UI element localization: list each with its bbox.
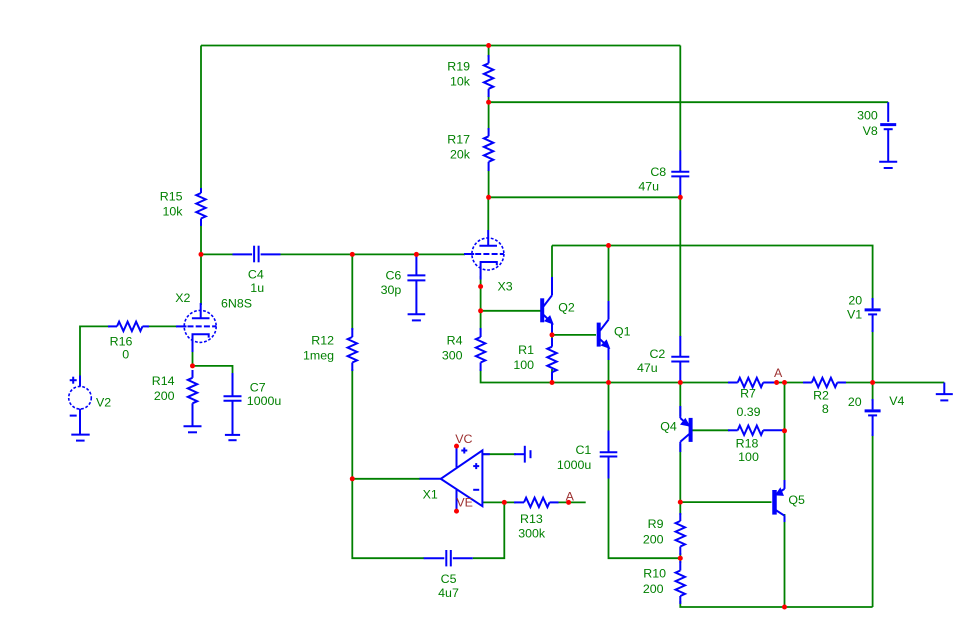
svg-text:Q5: Q5 [788, 493, 805, 507]
svg-text:Q4: Q4 [660, 420, 677, 434]
node dot inverting input / C5 branch [502, 500, 507, 505]
wire opamp output [352, 478, 420, 480]
node dot A stub right of R7 [774, 380, 779, 385]
node dot A vertical top [782, 380, 787, 385]
wire C1 to R9/R10 node [609, 479, 681, 559]
triode X3 [464, 230, 504, 280]
svg-text:R7: R7 [740, 387, 756, 401]
svg-text:0: 0 [122, 348, 129, 362]
svg-text:47u: 47u [638, 179, 659, 193]
node dot C6 top [414, 252, 419, 257]
wire node to right ground [873, 382, 945, 384]
resistor R12 1meg [348, 328, 357, 371]
triode X2 6N8S [176, 303, 216, 352]
wire Q1 collector vertical [608, 246, 610, 310]
svg-text:R16: R16 [110, 335, 133, 349]
wire R13 right to node A stub [558, 501, 586, 503]
wire V2 to R16 [80, 326, 110, 375]
node dot collector rail [606, 243, 611, 248]
svg-text:R10: R10 [643, 567, 666, 581]
svg-text:R19: R19 [447, 60, 470, 74]
wire X2 anode vertical [200, 254, 202, 305]
wire R2 to V1/V4 node [845, 382, 873, 384]
svg-text:20: 20 [848, 395, 862, 409]
resistor R7 0.39 (horizontal) [728, 378, 777, 387]
ground under R14 [184, 414, 202, 432]
svg-text:R13: R13 [520, 512, 543, 526]
svg-text:C7: C7 [250, 380, 266, 394]
svg-text:300: 300 [442, 349, 463, 363]
capacitor C5 4u7 (horizontal) [424, 550, 473, 566]
wire X3 cathode down [480, 276, 482, 311]
wire Q4 collector to R9 [679, 444, 681, 515]
resistor R9 200 [676, 513, 685, 555]
wire Q5 emitter down [784, 514, 786, 607]
resistor R2 8 (horizontal) [803, 378, 846, 387]
wire Q2 base [481, 310, 541, 312]
node dot R19 top [486, 43, 491, 48]
wire opamp noninverting input [482, 453, 516, 455]
node dot VC pin [454, 444, 459, 449]
wire C5 to inverting branch [473, 502, 505, 558]
wire X3 anode vertical [487, 197, 489, 230]
wire collector rail to V1 [552, 246, 873, 301]
wire Q1 base [552, 334, 596, 336]
wire R14 node to C7 [193, 366, 233, 375]
svg-text:R2: R2 [813, 389, 829, 403]
transistor Q1 (npn) [599, 301, 610, 360]
wire C8 to C2 vertical [679, 197, 681, 336]
capacitor C7 1000u [224, 373, 242, 435]
svg-text:200: 200 [643, 582, 664, 596]
wire R4 bottom to bottom rail [481, 369, 730, 383]
node dot A near R13 [566, 500, 571, 505]
svg-text:VC: VC [455, 432, 472, 446]
capacitor C4 1u (horizontal) [233, 246, 281, 263]
wire R12 line to C5 rail [352, 479, 424, 558]
node dot C2 / R7 / Q4 emitter [678, 380, 683, 385]
wire R7 to R2 segment [777, 382, 804, 384]
node dot X2 cathode / R14 / C7 [190, 363, 195, 368]
wire R15 bottom to node [200, 225, 202, 254]
svg-text:10k: 10k [450, 75, 471, 89]
svg-text:30p: 30p [381, 283, 402, 297]
node dot R15/C4/X2 anode [199, 252, 204, 257]
svg-text:R4: R4 [447, 333, 463, 347]
node dot R17/C8 wire [486, 195, 491, 200]
svg-text:Q2: Q2 [558, 301, 575, 315]
wire top rail B+ [201, 45, 680, 47]
wire R19/R17 junction to V8 [489, 101, 889, 103]
wire X3 cathode to R4 [480, 311, 482, 330]
svg-text:10k: 10k [163, 205, 184, 219]
resistor R14 200 [188, 370, 197, 414]
node dot R9/R10/C1 [678, 556, 683, 561]
op-amp X1 [420, 446, 490, 511]
capacitor C6 30p [407, 254, 425, 314]
node dot Q2 emitter / R1 / Q1 base [550, 332, 555, 337]
svg-text:1000u: 1000u [247, 394, 282, 408]
wire C1 vertical upper [608, 383, 610, 431]
wire X2 cathode to R14 node [192, 348, 194, 366]
svg-text:200: 200 [643, 532, 664, 546]
wire Q1 emitter down [608, 360, 610, 383]
wire node A vertical [784, 383, 786, 489]
svg-text:R14: R14 [152, 374, 175, 388]
wire R12 line upper [351, 254, 353, 330]
svg-text:100: 100 [738, 450, 759, 464]
wire R19 leads [488, 46, 490, 58]
svg-text:R18: R18 [736, 437, 759, 451]
resistor R17 20k [484, 128, 493, 171]
node dot R12 top [350, 252, 355, 257]
svg-text:C2: C2 [649, 347, 665, 361]
svg-text:8: 8 [822, 402, 829, 416]
svg-text:300k: 300k [518, 527, 546, 541]
node dot C8 bottom [678, 195, 683, 200]
node dot Q1 emitter / C1 [606, 380, 611, 385]
node dot R1 bottom [550, 380, 555, 385]
transistor Q4 (pnp) [680, 406, 690, 452]
resistor R13 300k (horizontal) [514, 498, 559, 507]
node dot opamp output on R12 line [350, 476, 355, 481]
svg-text:C6: C6 [385, 269, 401, 283]
svg-text:A: A [774, 366, 783, 380]
wire opamp inverting input to R13 [482, 501, 516, 503]
battery V8 300 [880, 102, 896, 162]
capacitor C1 1000u [600, 431, 618, 479]
wire Q2 collector vertical [551, 246, 553, 283]
svg-text:C5: C5 [441, 572, 457, 586]
voltage source V2 [69, 376, 92, 416]
wire Q2 emitter to R1 node [551, 333, 553, 341]
svg-text:X2: X2 [175, 291, 190, 305]
rotated ground at opamp + input [514, 446, 531, 463]
resistor R10 200 [676, 561, 685, 604]
svg-text:VE: VE [456, 496, 473, 510]
capacitor C2 47u [671, 336, 689, 383]
resistor R4 300 [476, 328, 485, 371]
svg-text:1000u: 1000u [557, 458, 592, 472]
svg-text:R1: R1 [518, 343, 534, 357]
transistor Q5 (pnp) [775, 480, 785, 522]
svg-text:R12: R12 [311, 333, 334, 347]
wire R9 to R10 [679, 553, 681, 563]
node dot Q4 collector / Q5 base / R9 [678, 500, 683, 505]
svg-text:V4: V4 [889, 394, 904, 408]
svg-text:47u: 47u [637, 361, 658, 375]
node dot Q5 emitter bottom [782, 605, 787, 610]
ground right of V4 node [936, 383, 953, 401]
wire C8 vertical upper [679, 46, 681, 152]
node dot R19/R17/V8 [486, 100, 491, 105]
ground under C7 [225, 435, 240, 440]
resistor R16 0 (horizontal) [108, 322, 149, 331]
node dot V1/V4/R2 [870, 380, 875, 385]
svg-text:R15: R15 [160, 189, 183, 203]
wire R10 to bottom rail [680, 601, 872, 607]
wire R17 leads [488, 102, 490, 130]
resistor R19 10k [484, 55, 493, 97]
svg-text:0.39: 0.39 [736, 405, 760, 419]
svg-text:R17: R17 [447, 133, 470, 147]
svg-text:R9: R9 [648, 517, 664, 531]
wire R16 to X2 grid [147, 325, 177, 327]
wire V4 bottom to bottom rail [872, 434, 874, 607]
svg-text:X3: X3 [498, 280, 513, 294]
node dot X3 cathode pin [478, 284, 483, 289]
wire Q5 base [680, 501, 771, 503]
svg-text:100: 100 [513, 358, 534, 372]
svg-text:300: 300 [857, 109, 878, 123]
svg-text:V8: V8 [863, 124, 878, 138]
wire R15 top vertical [200, 46, 202, 191]
capacitor C8 47u [671, 151, 689, 198]
wire R1 bottom lead [551, 369, 553, 383]
svg-text:6N8S: 6N8S [221, 297, 252, 311]
svg-text:Q1: Q1 [614, 324, 631, 338]
svg-text:1meg: 1meg [303, 349, 334, 363]
wire Q4 emitter vertical [679, 383, 681, 417]
wire main grid rail y254 [201, 253, 233, 255]
svg-text:C1: C1 [575, 443, 591, 457]
ground under V2 [71, 409, 89, 441]
wire R12 line lower to opamp output [351, 369, 353, 479]
transistor Q2 (npn) [542, 277, 553, 335]
svg-text:200: 200 [154, 389, 175, 403]
svg-text:C8: C8 [650, 165, 666, 179]
resistor R15 10k [196, 188, 205, 226]
svg-text:V1: V1 [847, 308, 862, 322]
battery V1 20 [865, 298, 881, 332]
svg-text:X1: X1 [423, 488, 438, 502]
battery V4 20 [865, 399, 881, 436]
svg-text:4u7: 4u7 [438, 586, 459, 600]
wire V1 bottom lead [872, 330, 874, 383]
ground under V8 [879, 162, 897, 168]
wire V4 top lead [872, 383, 874, 402]
wire Q4 base [693, 429, 730, 431]
node dot R18 / node A vertical [782, 428, 787, 433]
svg-text:A: A [566, 490, 575, 504]
node dot VE pin [454, 509, 459, 514]
ground under C6 [408, 314, 426, 320]
svg-text:20k: 20k [450, 148, 471, 162]
svg-text:V2: V2 [96, 396, 111, 410]
node dot X3 cathode / Q2 base [478, 308, 483, 313]
wire R17 bottom to C8 [489, 196, 681, 198]
svg-text:20: 20 [848, 294, 862, 308]
svg-text:C4: C4 [248, 268, 264, 282]
svg-text:1u: 1u [250, 281, 264, 295]
resistor R1 100 [547, 338, 556, 380]
resistor R18 100 (horizontal) [728, 426, 785, 435]
